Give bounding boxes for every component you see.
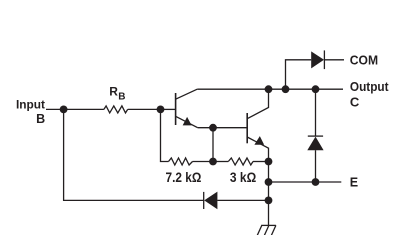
label Input B (16, 97, 45, 126)
svg-text:B: B (118, 91, 125, 102)
wire 3k to right node (253, 161, 269, 163)
svg-text:C: C (350, 95, 360, 110)
wire diode column lower (315, 150, 317, 182)
wire COM branch up (286, 60, 312, 89)
diode C-E (307, 136, 323, 150)
diode bottom (204, 192, 218, 210)
node diode bottom (312, 178, 320, 186)
node Q1 emitter (209, 124, 217, 132)
label Output C (350, 80, 389, 109)
wire diode column upper (315, 89, 317, 136)
wire Q2 emitter column down (268, 162, 270, 201)
wire emitter node down to resistor junction (212, 128, 214, 162)
node E junction (265, 178, 273, 186)
wire bottom diode to ground column (217, 199, 268, 201)
ground (257, 225, 276, 235)
wire RB node to Q1 base bar (161, 108, 176, 110)
svg-text:3 kΩ: 3 kΩ (230, 170, 256, 185)
node input B (60, 106, 68, 114)
svg-text:B: B (36, 112, 45, 126)
wire E rail (269, 181, 342, 183)
resistor 7.2k (169, 158, 193, 165)
wire 7.2k to junction node (193, 161, 214, 163)
wire ground stem (268, 200, 270, 225)
svg-text:7.2 kΩ: 7.2 kΩ (166, 170, 202, 185)
node rail diode top (312, 85, 320, 93)
svg-text:COM: COM (350, 52, 378, 67)
wire junction to 3k (213, 161, 228, 163)
diode COM (311, 50, 324, 69)
wire input column down and bottom run (64, 109, 204, 200)
wire RB to Q1 base (128, 108, 161, 110)
svg-text:E: E (350, 176, 358, 190)
resistor 3k (228, 158, 253, 165)
wire top rail (197, 88, 343, 90)
wire input label to node (46, 108, 64, 110)
wire node to resistor RB (64, 108, 104, 110)
node bottom junction (265, 197, 273, 205)
node COM branch (282, 85, 290, 93)
transistor Q1 (176, 89, 198, 128)
label RB (109, 85, 125, 103)
node rail Q2 collector (265, 85, 273, 93)
wire Q1 emitter to Q2 base (198, 127, 248, 129)
svg-text:R: R (109, 85, 118, 99)
node 3k right (265, 158, 273, 166)
resistor RB (104, 106, 128, 113)
wire COM diode to label (324, 59, 344, 61)
svg-text:Input: Input (16, 97, 45, 111)
transistor Q2 (247, 89, 268, 161)
node RB right (157, 106, 165, 114)
node resistor junction (209, 158, 217, 166)
wire RB node down and bend to 7.2k (161, 109, 169, 161)
svg-text:Output: Output (350, 80, 389, 94)
